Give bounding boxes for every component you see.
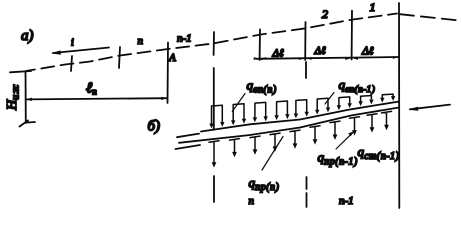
direction arrow i <box>51 48 109 55</box>
svg-text:Δℓ: Δℓ <box>314 45 326 57</box>
label n-1 (segment) <box>177 33 192 45</box>
label q_st(n-1) <box>358 144 400 162</box>
tick mark between i and n <box>119 47 120 68</box>
leader with arrowhead for q_pr(n-1) <box>336 131 354 149</box>
tick and vertical at point A <box>167 43 170 104</box>
label H_nzh (rotated) <box>5 84 22 111</box>
label a) <box>21 28 34 44</box>
label i <box>71 38 74 49</box>
svg-text:1: 1 <box>370 0 376 14</box>
beam break dash upper-left <box>177 134 199 138</box>
label A (point) <box>168 52 176 64</box>
distributed load staples q_vp arrows above beam <box>209 94 395 128</box>
svg-text:Δℓ: Δℓ <box>361 46 374 58</box>
dimension line delta-l chain <box>254 56 399 60</box>
label q_pr(n) <box>249 175 280 193</box>
svg-text:n-1: n-1 <box>177 33 192 45</box>
label 2 <box>322 7 328 21</box>
label b) <box>148 119 161 135</box>
tick/extension at x=305 (divider) <box>305 22 306 207</box>
svg-text:а): а) <box>21 28 34 44</box>
leader for q_pr(n) <box>262 137 283 171</box>
long vertical line at x=399 <box>398 3 400 208</box>
beam break dash lower-left <box>176 145 201 149</box>
tick mark i-segment <box>71 56 72 71</box>
tick/extension at x=352 <box>351 11 353 60</box>
distributed load T-arrows q_pr below beam <box>209 111 392 167</box>
horizontal arrow right of vertical line <box>408 105 450 111</box>
tick + section divider n/n-1 (x=214) <box>213 32 215 202</box>
svg-text:А: А <box>168 52 176 64</box>
svg-text:i: i <box>71 38 74 49</box>
main inclined dashed line (upper figure) <box>26 14 397 72</box>
label n (lower section) <box>249 195 255 207</box>
label delta-l (3rd) <box>361 46 374 58</box>
dashed line right of peak <box>400 14 459 20</box>
svg-text:б): б) <box>148 119 161 135</box>
label n-1 (lower section) <box>339 195 354 207</box>
label q_vp(n) <box>247 78 277 96</box>
svg-text:Δℓ: Δℓ <box>272 48 284 60</box>
label l_n <box>86 81 97 97</box>
svg-text:п: п <box>249 195 255 207</box>
leader for q_vp(n-1) <box>325 93 334 105</box>
svg-text:n: n <box>138 35 144 47</box>
label q_vp(n-1) <box>339 77 376 95</box>
svg-text:2: 2 <box>322 7 328 21</box>
label q_pr(n-1) <box>318 150 358 168</box>
beam bottom line <box>179 108 399 143</box>
H dimension vertical with top tick and bottom foot <box>10 71 35 127</box>
svg-text:п-1: п-1 <box>339 195 354 207</box>
dimension line l_n <box>26 97 168 101</box>
label 1 <box>370 0 376 14</box>
tick/extension at x=260 <box>259 29 261 60</box>
label n (segment) <box>138 35 144 47</box>
label delta-l (1st) <box>272 48 284 60</box>
beam top line <box>201 102 399 132</box>
leader for q_vp(n) <box>232 94 245 112</box>
label delta-l (2nd) <box>314 45 326 57</box>
